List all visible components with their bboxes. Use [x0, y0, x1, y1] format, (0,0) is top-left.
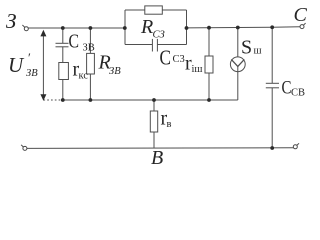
capacitor CCB plates [266, 82, 279, 84]
capacitor CC3 bottom wires [125, 44, 152, 46]
resistor R3B branch wire [89, 28, 91, 53]
current source S_sh top stub [237, 28, 239, 58]
svg-text:C: C [160, 46, 172, 70]
resistor RC3 top wires [125, 9, 145, 11]
svg-text:СЗ: СЗ [153, 30, 165, 41]
svg-text:′: ′ [28, 50, 31, 65]
svg-text:З: З [6, 9, 16, 33]
svg-text:ш: ш [254, 46, 262, 57]
capacitor C3B branch stub [62, 28, 64, 43]
svg-text:кс: кс [79, 71, 89, 82]
svg-text:в: в [167, 119, 172, 130]
resistor R3B body [87, 53, 95, 74]
RC loop left bar [124, 10, 126, 45]
svg-text:C: C [282, 78, 292, 99]
junction dot bottom bus [270, 146, 274, 150]
wire mid bus [63, 99, 238, 101]
resistor r_ish body [205, 56, 213, 73]
svg-text:C: C [69, 31, 80, 53]
svg-text:U: U [8, 53, 25, 77]
wire top bus right [187, 26, 273, 29]
terminal bottom right [293, 145, 297, 149]
current source S_sh chevron [231, 59, 244, 66]
wire cap to resistor [62, 47, 64, 63]
voltage arrow U'3B heads [40, 30, 46, 37]
capacitor CCB branch stub [271, 27, 273, 83]
terminal B bottom left [23, 146, 27, 150]
wire r_ish to mid bus [208, 73, 210, 100]
junction dots mid bus [61, 98, 65, 102]
resistor r_kc body [59, 63, 69, 80]
svg-text:ЗВ: ЗВ [26, 68, 38, 79]
resistor r_v body [150, 111, 157, 132]
wire resistor to mid bus [62, 80, 64, 101]
capacitor C3B plates [56, 42, 69, 44]
wire bottom bus [27, 147, 293, 150]
wire CCB to bottom bus [271, 88, 273, 148]
wire mid bus dashed part [43, 99, 62, 101]
svg-text:R: R [140, 16, 153, 38]
voltage arrow U'3B line [42, 32, 44, 98]
resistor RC3 body [145, 6, 163, 14]
terminal C (drain) [300, 25, 304, 29]
svg-text:ЗВ: ЗВ [83, 43, 95, 54]
capacitor CC3 plates [151, 39, 153, 52]
wire S_sh to mid bus [237, 66, 239, 100]
svg-text:iш: iш [192, 64, 203, 75]
wire r_v to bottom bus [153, 132, 155, 148]
wire top bus [28, 27, 125, 29]
svg-text:S: S [241, 37, 252, 59]
wire R3B to mid bus [89, 74, 91, 100]
terminal 3 (gate) [24, 27, 28, 31]
svg-text:СВ: СВ [291, 88, 305, 99]
resistor r_v branch wire [153, 100, 155, 111]
RC loop right bar [186, 10, 188, 45]
svg-text:В: В [151, 147, 163, 165]
junction dots top bus [61, 26, 65, 30]
current source S_sh circle [230, 57, 245, 72]
resistor r_ish branch wire [208, 28, 210, 56]
svg-text:ЗВ: ЗВ [109, 66, 121, 77]
svg-text:С3: С3 [173, 54, 185, 65]
svg-text:С: С [294, 4, 308, 26]
